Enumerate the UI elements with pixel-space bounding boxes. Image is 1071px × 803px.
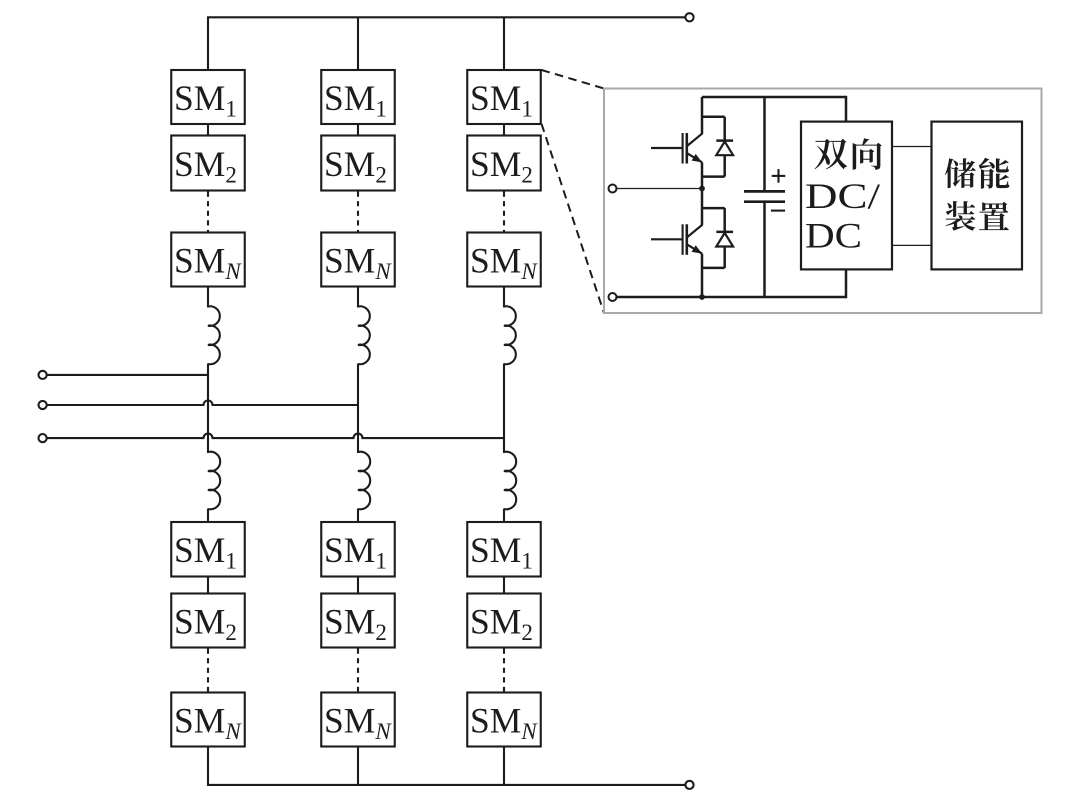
wire: upper inductor to lower inductor leg C <box>503 364 505 454</box>
svg-text:SM2: SM2 <box>470 144 533 188</box>
terminal: AC phase C port circle <box>39 434 47 442</box>
node: half-bridge midpoint junction dot <box>699 186 705 192</box>
terminal: SM lower port circle <box>609 293 617 301</box>
inductor: upper arm reactor leg B <box>358 306 370 364</box>
wire: dashed callout leader (bottom) <box>542 124 605 313</box>
terminal: DC- port circle <box>685 781 693 789</box>
svg-text:SMN: SMN <box>174 701 242 745</box>
wire: dashed continuation SM2..SMN upper leg C <box>503 192 505 232</box>
svg-text:SM1: SM1 <box>470 78 533 122</box>
wire: upper inductor to lower inductor leg B <box>357 364 359 454</box>
capacitor C (DC-link) <box>744 97 785 297</box>
submodule SM1 upper arm leg B <box>321 70 395 124</box>
wire: AC phase A line <box>47 374 208 376</box>
svg-text:SM2: SM2 <box>470 602 533 646</box>
wire: DC/DC to storage upper link <box>892 146 932 148</box>
terminal: AC phase B port circle <box>39 401 47 409</box>
node: bottom rail junction dot <box>699 294 705 300</box>
wire: bottom rail lower port to DC/DC <box>617 296 847 299</box>
svg-text:SM2: SM2 <box>324 602 387 646</box>
wire: top bus to upper SM1 leg C <box>503 17 505 70</box>
wire: negative DC bus (bottom) <box>207 784 685 786</box>
wire: SM1-SM2 upper leg C <box>503 124 505 136</box>
svg-text:SM1: SM1 <box>324 530 387 574</box>
svg-text:SMN: SMN <box>174 241 242 285</box>
submodule detail enclosure box <box>604 89 1042 314</box>
wire: bottom rail rise into DC/DC box <box>845 269 848 298</box>
wire: SMN to bottom bus leg B <box>357 747 359 785</box>
inductor: upper arm reactor leg A <box>208 306 220 364</box>
wire: SMN to arm inductor upper leg C <box>503 287 505 308</box>
wire: DC/DC to storage lower link <box>892 244 932 246</box>
svg-text:SM2: SM2 <box>174 144 237 188</box>
wire: AC phase B line with crossover hop <box>47 401 358 406</box>
diode D1 (antiparallel) <box>702 117 733 177</box>
inductor: lower arm reactor leg B <box>358 452 370 510</box>
svg-text:SMN: SMN <box>470 241 538 285</box>
svg-text:SM2: SM2 <box>174 602 237 646</box>
label: capacitor - polarity <box>771 210 785 212</box>
wire: dashed continuation SM2..SMN lower leg B <box>357 649 359 692</box>
wire: lower inductor to SM1 lower leg B <box>357 509 359 523</box>
converter U1: bidirectional DC/DC box <box>801 122 892 270</box>
wire: SMN to arm inductor upper leg A <box>207 287 209 308</box>
submodule SM1 upper arm leg C <box>467 70 541 124</box>
submodule SM1 lower arm leg C <box>467 522 541 577</box>
wire: SM1-SM2 upper leg B <box>357 124 359 136</box>
submodule SMN upper arm leg C <box>467 233 541 287</box>
wire: lower inductor to SM1 lower leg C <box>503 509 505 523</box>
submodule SM1 lower arm leg B <box>321 522 395 577</box>
wire: SM1-SM2 lower leg B <box>357 577 359 594</box>
svg-text:SM1: SM1 <box>174 530 237 574</box>
svg-text:SM1: SM1 <box>324 78 387 122</box>
terminal: DC+ port circle <box>685 13 693 21</box>
submodule SM2 lower arm leg A <box>171 594 245 648</box>
svg-text:SM1: SM1 <box>470 530 533 574</box>
wire: top rail drop into DC/DC box <box>845 96 848 122</box>
wire: top bus to upper SM1 leg B <box>357 17 359 70</box>
submodule SM2 upper arm leg A <box>171 136 245 191</box>
wire: dashed continuation SM2..SMN upper leg B <box>357 192 359 232</box>
wire: SM1-SM2 lower leg A <box>207 577 209 594</box>
wire: upper port to half-bridge midpoint <box>617 188 703 190</box>
submodule SMN lower arm leg B <box>321 693 395 747</box>
wire: lower inductor to SM1 lower leg A <box>207 509 209 523</box>
inductor: lower arm reactor leg A <box>208 452 220 510</box>
terminal: AC phase A port circle <box>39 371 47 379</box>
submodule SM1 lower arm leg A <box>171 522 245 577</box>
wire: SMN to bottom bus leg A <box>207 747 209 785</box>
wire: top bus to upper SM1 leg A <box>207 17 209 70</box>
svg-text:SM2: SM2 <box>324 144 387 188</box>
submodule SMN lower arm leg A <box>171 693 245 747</box>
wire: SM1-SM2 upper leg A <box>207 124 209 136</box>
wire: AC phase C line with crossover hops <box>47 434 504 438</box>
submodule SM2 lower arm leg C <box>467 594 541 648</box>
wire: upper inductor to lower inductor leg A <box>207 364 209 454</box>
wire: dashed callout leader (top) <box>542 70 605 89</box>
submodule SMN upper arm leg B <box>321 233 395 287</box>
wire: positive DC bus (top) <box>207 16 685 18</box>
battery: energy storage device box <box>932 122 1023 270</box>
svg-text:DC: DC <box>805 216 862 256</box>
inductor: upper arm reactor leg C <box>504 306 516 364</box>
submodule SMN upper arm leg A <box>171 233 245 287</box>
svg-text:SMN: SMN <box>324 701 392 745</box>
wire: dashed continuation SM2..SMN lower leg C <box>503 649 505 692</box>
wire: top rail collector to capacitor/DCDC <box>702 96 846 99</box>
wire: dashed continuation SM2..SMN lower leg A <box>207 649 209 692</box>
inductor: lower arm reactor leg C <box>504 452 516 510</box>
svg-text:SMN: SMN <box>470 701 538 745</box>
diode D2 (antiparallel) <box>702 208 733 268</box>
svg-text:SMN: SMN <box>324 241 392 285</box>
terminal: SM upper port circle <box>609 185 617 193</box>
submodule SM2 lower arm leg B <box>321 594 395 648</box>
wire: SMN to arm inductor upper leg B <box>357 287 359 308</box>
label: capacitor + polarity <box>772 169 786 183</box>
transistor Q1 (upper IGBT) <box>651 97 725 189</box>
submodule SM2 upper arm leg B <box>321 136 395 191</box>
wire: dashed continuation SM2..SMN upper leg A <box>207 192 209 232</box>
submodule SMN lower arm leg C <box>467 693 541 747</box>
transistor Q2 (lower IGBT) <box>651 189 725 298</box>
wire: SMN to bottom bus leg C <box>503 747 505 785</box>
svg-text:DC/: DC/ <box>805 176 880 216</box>
wire: SM1-SM2 lower leg C <box>503 577 505 594</box>
submodule SM1 upper arm leg A <box>171 70 245 124</box>
submodule SM2 upper arm leg C <box>467 136 541 191</box>
svg-text:SM1: SM1 <box>174 78 237 122</box>
